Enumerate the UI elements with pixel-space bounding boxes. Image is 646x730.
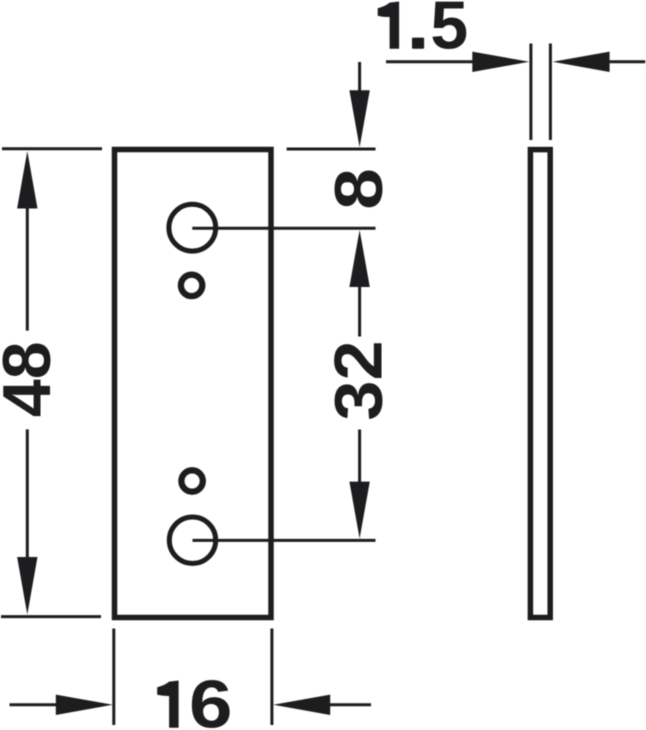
extension line side plate left: [529, 44, 532, 141]
svg-text:32: 32: [320, 340, 396, 420]
plate side view outline: [530, 150, 550, 618]
dim 48 lower arrowhead: [17, 557, 37, 615]
dim 1.5 right tail: [605, 60, 645, 63]
dim 48 upper arrowhead: [17, 151, 37, 209]
dim 1.5 left tail: [386, 60, 478, 63]
extension line top left: [2, 147, 102, 150]
svg-text:6: 6: [189, 666, 232, 730]
dim 1.5 label digit 1: [378, 2, 399, 49]
hole top large: [169, 204, 216, 251]
dim 16 label digit 1: [157, 681, 178, 728]
dim 32 upper shaft: [358, 285, 361, 337]
dim 32 down arrowhead: [349, 482, 369, 539]
extension line bottom right of plate: [270, 629, 273, 726]
leader line hole bottom center: [193, 539, 376, 542]
dim 1.5 left arrowhead pointing left: [553, 52, 610, 72]
hole bottom large: [169, 517, 215, 563]
dim 1.5 right arrowhead pointing right: [472, 52, 529, 72]
extension line bottom left of plate: [112, 629, 115, 726]
extension line top right of plate: [287, 148, 376, 151]
svg-text:8: 8: [321, 168, 397, 210]
svg-text:48: 48: [0, 341, 65, 417]
dim 32 lower shaft: [358, 430, 361, 484]
dim 48 upper shaft: [26, 206, 29, 331]
plate front view outline: [115, 150, 272, 618]
dim 1.5 label decimal point: [412, 38, 424, 49]
dim 8 down arrowhead: [349, 90, 369, 147]
svg-text:5: 5: [430, 0, 468, 64]
dim 16 right tail: [325, 703, 371, 706]
dim 8 upper shaft: [358, 62, 361, 93]
dim 48 lower shaft: [26, 429, 29, 559]
extension line side plate right: [549, 44, 552, 141]
extension line bottom left: [1, 615, 101, 618]
dim 16 left arrowhead pointing right: [56, 695, 113, 715]
hole top small: [181, 275, 202, 296]
dim 16 right arrowhead pointing left: [273, 695, 330, 715]
leader line hole top center: [192, 227, 375, 230]
dim 32 up arrowhead: [349, 230, 369, 287]
hole bottom small: [181, 470, 202, 491]
dim 16 left tail: [10, 703, 61, 706]
